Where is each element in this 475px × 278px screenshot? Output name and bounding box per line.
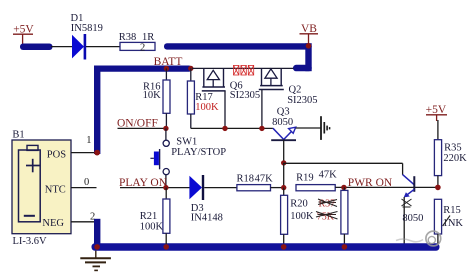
junction [281,185,286,190]
resistor R19 47K [296,170,337,191]
wire thick BATT vertical [94,66,100,155]
junction [222,126,227,131]
svg-text:220K: 220K [443,153,467,164]
battery B1 [12,130,71,247]
svg-text:100K: 100K [140,221,164,232]
svg-text:100K: 100K [195,102,219,113]
power +5V left [13,23,34,44]
wire [402,163,404,175]
svg-text:R38: R38 [119,32,137,43]
junction [341,185,346,190]
wire gate row [191,127,273,129]
junction node [281,160,286,165]
junction [259,126,264,131]
wire PWR ON row [335,186,438,188]
junction [94,244,100,250]
diode D1 [71,13,103,60]
junction [342,244,348,250]
svg-text:1NK: 1NK [443,218,464,229]
svg-text:SW1: SW1 [176,137,197,148]
wire [283,163,285,188]
svg-text:R15: R15 [443,205,461,216]
svg-text:Q3: Q3 [277,107,290,118]
pin 1 POS [71,135,100,155]
svg-text:SI2305: SI2305 [230,90,260,101]
transistor Q3 8050 [271,107,296,163]
ground rotated [321,116,330,140]
resistor R35 220K [434,120,467,187]
wire emitter [296,127,321,129]
resistor crossed-out [341,187,348,244]
svg-text:IN5819: IN5819 [71,23,103,34]
svg-text:R35: R35 [444,142,462,153]
svg-text:LI-3.6V: LI-3.6V [13,236,48,247]
svg-text:100K: 100K [290,211,314,222]
svg-text:PWR ON: PWR ON [348,177,393,189]
wire thick ground rail [92,243,440,251]
wire [120,187,190,189]
svg-text:47K: 47K [319,170,338,181]
power VB [300,23,319,48]
resistor R15 [434,199,463,245]
junction [435,185,441,191]
wire thick BATT horizontal [94,66,192,72]
svg-text:1R: 1R [142,32,154,43]
transistor 8050 right [402,175,424,244]
svg-text:0: 0 [84,177,89,188]
svg-text:IN4148: IN4148 [191,212,223,223]
resistor R18 47K [237,173,274,190]
resistor R21 100K [140,188,170,244]
svg-text:NTC: NTC [45,184,66,195]
switch SW1 PLAY/STOP [150,128,226,187]
wire ON/OFF [118,127,167,129]
svg-text:1: 1 [86,135,91,146]
pin 2 NEG [71,212,96,223]
svg-text:R20: R20 [290,198,308,209]
wire [192,67,294,69]
svg-text:+5V: +5V [426,104,447,116]
svg-text:R19: R19 [296,173,314,184]
deleted marks [234,65,254,75]
junction [188,66,193,71]
svg-text:8050: 8050 [402,213,423,224]
svg-text:SI2305: SI2305 [287,95,317,106]
resistor R20 100K [281,188,314,244]
wire [284,162,403,164]
svg-text:PLAY/STOP: PLAY/STOP [171,147,226,158]
watermark [396,231,441,246]
resistor R38 1R [119,32,155,54]
svg-text:ON/OFF: ON/OFF [117,117,158,129]
junction [164,66,169,71]
svg-text:NEG: NEG [42,218,64,229]
junction [163,244,169,250]
svg-text:47K: 47K [255,173,274,184]
transistor Q6 SI2305 [202,68,260,128]
svg-text:R21: R21 [140,211,158,222]
svg-text:R18: R18 [237,173,255,184]
junction [163,126,168,131]
wire [204,187,237,189]
wire [86,46,120,48]
ground [80,251,111,271]
svg-text:POS: POS [47,149,66,160]
junction [163,185,168,190]
deleted value text [316,199,338,223]
pin 0 NTC [71,177,97,188]
resistor R16 10K [143,68,170,128]
diode D3 IN4148 [189,175,222,223]
wire [51,46,73,48]
resistor R17 100K [187,68,219,128]
transistor Q2 SI2305 [259,68,318,128]
wire thick +5V bus [20,44,53,51]
svg-text:B1: B1 [12,130,24,141]
wire thick NEG [94,219,100,247]
wire thick VB bus [164,43,312,71]
power +5V right [426,104,447,121]
svg-text:10K: 10K [143,90,162,101]
junction [281,244,287,250]
wire [271,187,285,189]
svg-text:Q2: Q2 [289,84,302,95]
svg-text:2: 2 [140,42,145,53]
svg-text:8050: 8050 [272,117,293,128]
